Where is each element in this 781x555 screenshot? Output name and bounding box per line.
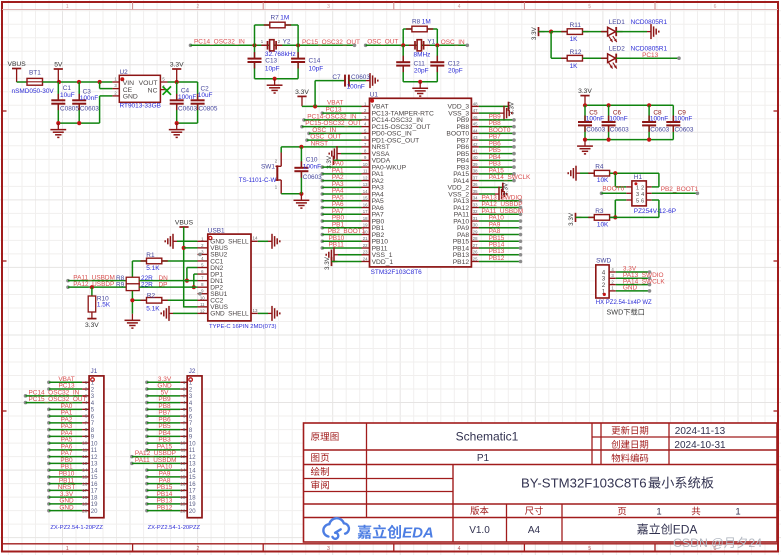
svg-text:R7: R7 [271, 15, 280, 22]
svg-text:20pF: 20pF [448, 68, 463, 75]
svg-text:17: 17 [363, 209, 368, 214]
svg-text:3.3V: 3.3V [531, 26, 538, 40]
svg-text:34: 34 [473, 196, 478, 201]
svg-text:100nF: 100nF [347, 84, 365, 91]
svg-text:17: 17 [180, 488, 186, 493]
svg-text:3: 3 [327, 546, 330, 552]
svg-text:20: 20 [189, 509, 196, 515]
svg-text:9: 9 [85, 434, 88, 439]
svg-text:26: 26 [473, 250, 478, 255]
svg-text:2024-11-13: 2024-11-13 [675, 426, 726, 437]
svg-text:19: 19 [189, 502, 196, 508]
svg-text:13: 13 [91, 462, 98, 468]
svg-text:OSC_IN: OSC_IN [441, 39, 465, 46]
svg-text:17: 17 [91, 489, 98, 495]
svg-text:U1: U1 [370, 92, 379, 99]
svg-text:1: 1 [735, 507, 740, 518]
svg-text:12: 12 [200, 308, 205, 313]
svg-text:USB1: USB1 [208, 227, 225, 234]
svg-text:R12: R12 [570, 49, 582, 56]
svg-text:41: 41 [473, 149, 478, 154]
svg-text:15: 15 [189, 475, 196, 481]
svg-text:V1.0: V1.0 [469, 525, 490, 536]
svg-text:PB11: PB11 [329, 242, 345, 249]
svg-text:38: 38 [473, 169, 478, 174]
svg-text:U2: U2 [120, 69, 129, 76]
svg-text:18: 18 [363, 216, 368, 221]
svg-text:14: 14 [180, 468, 186, 473]
svg-text:3.3V: 3.3V [170, 61, 184, 68]
svg-text:R4: R4 [595, 164, 604, 171]
svg-text:10pF: 10pF [309, 65, 324, 72]
svg-text:1: 1 [66, 546, 69, 552]
svg-text:5V: 5V [54, 61, 63, 68]
svg-text:PB12: PB12 [453, 259, 470, 266]
svg-text:17: 17 [82, 488, 88, 493]
svg-text:22: 22 [363, 243, 368, 248]
svg-text:14: 14 [82, 468, 88, 473]
svg-text:PC14_OSC32_IN: PC14_OSC32_IN [194, 38, 245, 45]
svg-text:C12: C12 [448, 60, 460, 67]
svg-text:10: 10 [189, 441, 196, 447]
svg-text:13: 13 [253, 308, 259, 313]
svg-text:3.3V: 3.3V [578, 88, 592, 95]
svg-text:ZX-PZ2.54-1-20PZZ: ZX-PZ2.54-1-20PZZ [148, 525, 201, 531]
svg-text:P1: P1 [477, 453, 490, 464]
svg-text:100nF: 100nF [674, 115, 692, 122]
svg-text:5: 5 [588, 546, 591, 552]
svg-text:OSC_OUT: OSC_OUT [367, 39, 398, 46]
svg-text:3: 3 [183, 393, 186, 398]
svg-text:18: 18 [82, 495, 88, 500]
svg-text:ZX-PZ2.54-1-20PZZ: ZX-PZ2.54-1-20PZZ [50, 525, 103, 531]
svg-text:5: 5 [183, 407, 186, 412]
svg-text:6: 6 [183, 414, 186, 419]
svg-text:31: 31 [473, 216, 478, 221]
svg-text:1M: 1M [422, 18, 431, 25]
svg-text:2: 2 [197, 4, 200, 10]
svg-text:24: 24 [748, 536, 762, 550]
svg-text:43: 43 [473, 135, 478, 140]
svg-text:C0603: C0603 [80, 105, 99, 112]
svg-text:44: 44 [473, 128, 478, 133]
svg-text:100nF: 100nF [650, 115, 668, 122]
svg-text:47: 47 [473, 108, 478, 113]
svg-text:16: 16 [82, 481, 88, 486]
svg-text:4: 4 [641, 192, 644, 198]
svg-text:39: 39 [473, 162, 478, 167]
svg-text:BY-STM32F103C8T6: BY-STM32F103C8T6 [521, 476, 647, 491]
svg-text:R11: R11 [570, 22, 582, 29]
svg-text:20: 20 [82, 508, 88, 513]
svg-text:VBUS: VBUS [7, 61, 26, 68]
svg-text:46: 46 [473, 115, 478, 120]
svg-text:100nF: 100nF [80, 95, 98, 102]
svg-text:10: 10 [363, 162, 368, 167]
svg-text:18: 18 [91, 495, 98, 501]
svg-text:16: 16 [91, 482, 98, 488]
svg-text:1: 1 [66, 4, 69, 10]
svg-text:NC: NC [148, 87, 158, 94]
svg-text:27: 27 [473, 243, 478, 248]
svg-text:10: 10 [200, 295, 205, 300]
svg-text:R9: R9 [116, 281, 125, 288]
svg-text:11: 11 [91, 448, 98, 454]
svg-text:C11: C11 [414, 60, 426, 67]
svg-text:11: 11 [200, 302, 205, 307]
svg-text:20: 20 [180, 508, 186, 513]
svg-text:PC15_OSC32_OUT: PC15_OSC32_OUT [29, 396, 87, 403]
svg-text:9: 9 [183, 434, 186, 439]
svg-text:TYPE-C 16PIN 2MD(073): TYPE-C 16PIN 2MD(073) [209, 324, 276, 330]
svg-text:37: 37 [473, 175, 478, 180]
svg-text:35: 35 [473, 189, 478, 194]
svg-text:2: 2 [85, 387, 88, 392]
svg-text:GND: GND [623, 285, 638, 292]
svg-text:C0603: C0603 [586, 127, 605, 134]
svg-text:10K: 10K [597, 177, 609, 184]
svg-text:1: 1 [85, 380, 88, 385]
svg-text:45: 45 [473, 122, 478, 127]
svg-text:32: 32 [473, 209, 478, 214]
svg-text:EDA: EDA [402, 525, 434, 542]
svg-text:10uF: 10uF [60, 92, 75, 99]
svg-text:16: 16 [363, 202, 368, 207]
svg-text:PB2_BOOT1: PB2_BOOT1 [661, 186, 699, 193]
svg-text:16: 16 [189, 482, 196, 488]
svg-text:15: 15 [82, 474, 88, 479]
svg-text:12: 12 [91, 455, 98, 461]
svg-text:BOOT0: BOOT0 [602, 186, 624, 193]
svg-text:40: 40 [473, 155, 478, 160]
svg-text:C1: C1 [63, 85, 72, 92]
svg-text:7: 7 [85, 420, 88, 425]
svg-text:19: 19 [180, 502, 186, 507]
svg-text:1: 1 [636, 186, 639, 192]
svg-text:12: 12 [82, 454, 88, 459]
svg-text:Schematic1: Schematic1 [456, 430, 519, 444]
svg-text:19: 19 [363, 223, 368, 228]
svg-text:19: 19 [91, 502, 98, 508]
svg-text:4: 4 [458, 4, 461, 10]
svg-text:C7: C7 [332, 74, 341, 81]
svg-text:29: 29 [473, 229, 478, 234]
svg-text:PA14_SWCLK: PA14_SWCLK [489, 174, 531, 181]
svg-text:PZ254V-12-6P: PZ254V-12-6P [634, 208, 676, 215]
svg-text:3.3V: 3.3V [295, 89, 309, 96]
svg-text:5: 5 [636, 199, 639, 205]
svg-text:100nF: 100nF [303, 163, 321, 170]
svg-text:15: 15 [180, 474, 186, 479]
svg-text:30: 30 [473, 223, 478, 228]
svg-text:6: 6 [641, 199, 644, 205]
svg-text:PC15_OSC32_OUT: PC15_OSC32_OUT [302, 39, 360, 46]
svg-text:C0603: C0603 [351, 74, 370, 81]
svg-text:C0603: C0603 [675, 127, 694, 134]
svg-text:1K: 1K [570, 63, 579, 70]
svg-text:5.1K: 5.1K [146, 265, 160, 272]
svg-text:11: 11 [83, 447, 88, 452]
svg-text:13: 13 [189, 462, 196, 468]
svg-text:13: 13 [82, 461, 88, 466]
svg-text:3.3V: 3.3V [324, 256, 331, 270]
svg-text:C0603: C0603 [178, 105, 197, 112]
svg-text:VBUS: VBUS [175, 219, 194, 226]
svg-text:CSDN @: CSDN @ [673, 536, 724, 550]
svg-text:H1: H1 [634, 174, 643, 181]
svg-text:1M: 1M [280, 15, 289, 22]
svg-text:17: 17 [189, 489, 196, 495]
svg-text:18: 18 [180, 495, 186, 500]
svg-text:J1: J1 [91, 368, 98, 375]
svg-text:14: 14 [91, 468, 98, 474]
svg-text:C13: C13 [265, 57, 277, 64]
svg-text:SWD: SWD [596, 258, 611, 265]
svg-text:1: 1 [656, 507, 661, 518]
svg-text:C0603: C0603 [650, 127, 669, 134]
svg-text:C14: C14 [309, 57, 321, 64]
svg-text:20: 20 [91, 509, 98, 515]
svg-text:5.1K: 5.1K [146, 305, 160, 312]
svg-text:6: 6 [714, 4, 717, 10]
svg-text:C0805: C0805 [199, 105, 218, 112]
svg-text:12: 12 [180, 454, 186, 459]
svg-text:28: 28 [473, 236, 478, 241]
svg-text:21: 21 [363, 236, 368, 241]
svg-text:SW1: SW1 [261, 164, 275, 171]
svg-text:VDD_1: VDD_1 [372, 259, 394, 266]
svg-text:24: 24 [363, 256, 368, 261]
svg-text:3.3V: 3.3V [85, 322, 99, 329]
svg-text:10: 10 [180, 441, 186, 446]
svg-text:Y1: Y1 [427, 39, 435, 46]
svg-text:23: 23 [363, 250, 368, 255]
svg-text:6: 6 [85, 414, 88, 419]
svg-text:25: 25 [473, 256, 478, 261]
svg-text:11: 11 [181, 447, 186, 452]
svg-text:TS-1101-C-W: TS-1101-C-W [239, 177, 277, 184]
svg-text:GND: GND [59, 504, 74, 511]
svg-text:RT9013-33GB: RT9013-33GB [120, 102, 161, 109]
svg-text:13: 13 [363, 182, 368, 187]
svg-text:SHELL: SHELL [228, 311, 249, 318]
svg-text:SHELL: SHELL [228, 239, 249, 246]
svg-text:13: 13 [180, 461, 186, 466]
svg-text:7: 7 [183, 420, 186, 425]
svg-text:2: 2 [183, 387, 186, 392]
svg-text:NRST: NRST [311, 140, 329, 147]
svg-text:18: 18 [189, 495, 196, 501]
svg-text:HX PZ2.54-1x4P WZ: HX PZ2.54-1x4P WZ [596, 300, 652, 306]
svg-text:4: 4 [85, 400, 88, 405]
svg-text:10uF: 10uF [198, 92, 213, 99]
svg-text:19: 19 [82, 502, 88, 507]
svg-text:33: 33 [473, 202, 478, 207]
svg-text:2024-10-31: 2024-10-31 [674, 440, 726, 451]
svg-text:J2: J2 [189, 368, 196, 375]
svg-text:11: 11 [189, 448, 196, 454]
svg-text:GND: GND [210, 311, 225, 318]
svg-text:1: 1 [183, 380, 186, 385]
svg-text:3: 3 [327, 4, 330, 10]
svg-text:SWD: SWD [607, 308, 624, 317]
svg-text:36: 36 [473, 182, 478, 187]
svg-text:C0603: C0603 [610, 127, 629, 134]
svg-text:14: 14 [189, 468, 196, 474]
svg-text:C0603: C0603 [303, 174, 322, 181]
svg-text:100nF: 100nF [609, 115, 627, 122]
svg-text:VOUT: VOUT [139, 80, 158, 87]
svg-text:LED1: LED1 [609, 19, 626, 26]
svg-text:R1: R1 [146, 252, 155, 259]
svg-text:10pF: 10pF [265, 65, 280, 72]
svg-text:GND: GND [123, 94, 138, 101]
svg-text:22R: 22R [141, 281, 153, 288]
svg-text:VIN: VIN [123, 80, 134, 87]
svg-text:10: 10 [82, 441, 88, 446]
svg-text:100nF: 100nF [586, 115, 604, 122]
svg-text:PC13: PC13 [642, 52, 659, 59]
svg-text:nSMD050-30V: nSMD050-30V [12, 88, 55, 95]
svg-text:PB12: PB12 [157, 504, 173, 511]
svg-text:15: 15 [91, 475, 98, 481]
svg-text:14: 14 [253, 236, 259, 241]
svg-text:8: 8 [85, 427, 88, 432]
svg-text:10: 10 [91, 441, 98, 447]
svg-text:10K: 10K [597, 222, 609, 229]
svg-text:5: 5 [85, 407, 88, 412]
svg-text:C0805: C0805 [60, 105, 79, 112]
svg-text:BT1: BT1 [29, 69, 41, 76]
svg-text:DP: DP [159, 281, 168, 288]
svg-text:EDA: EDA [673, 523, 698, 537]
svg-text:PB12: PB12 [489, 255, 505, 262]
svg-text:R2: R2 [147, 292, 156, 299]
svg-text:2: 2 [196, 546, 199, 552]
svg-text:20pF: 20pF [414, 68, 429, 75]
svg-text:2: 2 [641, 186, 644, 192]
svg-text:3: 3 [636, 192, 639, 198]
svg-text:11: 11 [363, 169, 368, 174]
svg-text:R3: R3 [595, 208, 604, 215]
svg-text:12: 12 [189, 455, 196, 461]
svg-text:Y2: Y2 [283, 39, 291, 46]
svg-text:4: 4 [183, 400, 186, 405]
svg-text:1.5K: 1.5K [97, 302, 111, 309]
svg-text:8: 8 [183, 427, 186, 432]
svg-text:R8: R8 [412, 18, 421, 25]
svg-text:STM32F103C8T6: STM32F103C8T6 [371, 269, 423, 276]
svg-text:NCD0805R1: NCD0805R1 [631, 19, 668, 26]
svg-text:5: 5 [588, 4, 591, 10]
svg-text:LED2: LED2 [609, 45, 626, 52]
svg-text:48: 48 [473, 101, 478, 106]
svg-text:A4: A4 [528, 525, 541, 536]
svg-text:3.3V: 3.3V [568, 212, 575, 226]
svg-text:16: 16 [180, 481, 186, 486]
svg-text:1K: 1K [570, 36, 579, 43]
svg-text:VBAT: VBAT [327, 100, 343, 107]
svg-text:14: 14 [363, 189, 368, 194]
svg-text:4: 4 [458, 546, 461, 552]
svg-text:12: 12 [363, 175, 368, 180]
svg-text:42: 42 [473, 142, 478, 147]
svg-text:15: 15 [363, 196, 368, 201]
svg-text:8MHz: 8MHz [414, 52, 431, 59]
